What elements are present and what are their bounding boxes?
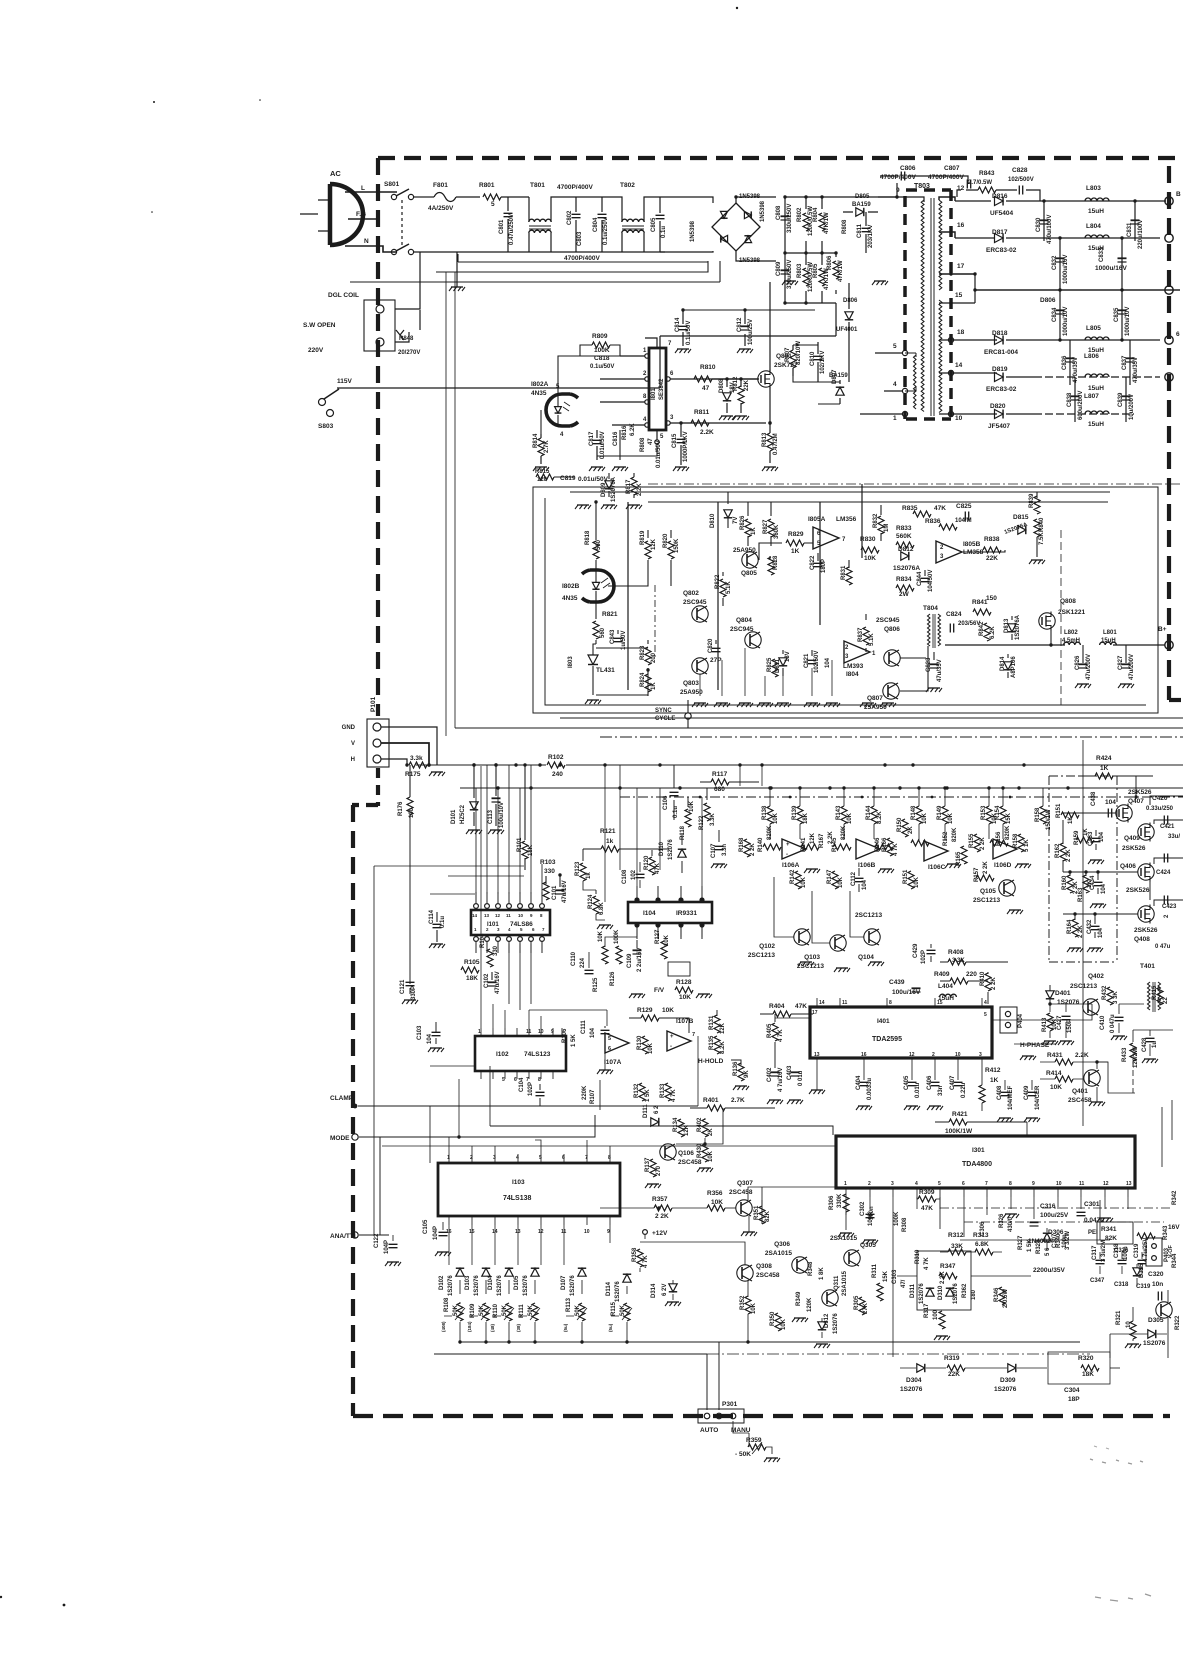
svg-text:4: 4 (893, 381, 897, 388)
ground cluster under I801 (591, 466, 603, 468)
svg-text:R328: R328 (1036, 1239, 1042, 1254)
svg-text:1000u/16V: 1000u/16V (1095, 265, 1127, 272)
svg-text:0.0033u: 0.0033u (867, 1078, 873, 1100)
svg-text:1: 1 (844, 1181, 847, 1187)
svg-text:I106D: I106D (994, 862, 1012, 869)
capacitor C827 47u/200V (1125, 645, 1127, 663)
svg-text:5 1K: 5 1K (1024, 839, 1030, 852)
svg-text:0.47u/250V: 0.47u/250V (509, 214, 515, 245)
wire control bus A (570, 491, 1110, 493)
svg-text:13: 13 (814, 1052, 820, 1058)
svg-text:D810: D810 (710, 513, 716, 528)
svg-text:R117: R117 (712, 771, 728, 778)
svg-text:R141: R141 (801, 837, 807, 852)
svg-text:I103: I103 (512, 1179, 525, 1186)
svg-text:R340: R340 (1056, 1233, 1062, 1248)
svg-text:120K: 120K (807, 1297, 813, 1312)
I102 pins top (481, 1028, 562, 1036)
svg-text:10K: 10K (1050, 1084, 1062, 1091)
svg-text:C317: C317 (1092, 1245, 1098, 1260)
svg-text:R137: R137 (645, 1157, 651, 1172)
grounds bias network (1069, 947, 1081, 949)
svg-text:220u/100V: 220u/100V (1138, 220, 1144, 249)
svg-text:1S2076: 1S2076 (919, 1283, 925, 1304)
resistor R132 1.5K (639, 1083, 645, 1101)
svg-text:10K: 10K (689, 800, 695, 812)
svg-text:R405: R405 (767, 1023, 773, 1038)
wire H pin (381, 759, 407, 765)
svg-text:3 3K: 3 3K (1113, 991, 1119, 1004)
capacitor C838 600u/200V (1074, 377, 1076, 422)
svg-text:I102: I102 (496, 1051, 509, 1058)
svg-text:R166: R166 (882, 837, 888, 852)
svg-text:14: 14 (955, 362, 963, 369)
svg-text:100K: 100K (894, 1211, 900, 1226)
resistor R144 8.2K (871, 806, 877, 824)
svg-text:C424: C424 (1156, 870, 1171, 876)
svg-text:F801: F801 (433, 182, 448, 189)
capacitor symbols row C317-C319 (1096, 1260, 1105, 1263)
ground Q307 (743, 1231, 755, 1233)
IC I301 TDA4800 (836, 1136, 1135, 1188)
wire I101 outputs down (509, 944, 531, 1010)
svg-text:680: 680 (714, 786, 725, 793)
svg-text:820K: 820K (767, 825, 773, 840)
capacitor C811 203/1KV (865, 212, 867, 253)
svg-text:C804: C804 (593, 217, 599, 232)
capacitor C810 102/1KV (817, 342, 819, 382)
resistor R138 10K (767, 806, 773, 824)
svg-text:104: 104 (1098, 927, 1104, 938)
wire control verticals (628, 484, 862, 690)
resistor R137 270 (650, 1159, 656, 1177)
op-amp I107B (667, 1031, 691, 1051)
svg-text:4700P/400V: 4700P/400V (557, 184, 593, 191)
svg-text:C802: C802 (567, 210, 573, 225)
svg-text:2 2K: 2 2K (655, 1213, 669, 1220)
transistor Q104 2SC1213 (864, 929, 880, 945)
svg-text:R809: R809 (592, 333, 608, 340)
pin F.G (348, 218, 378, 220)
svg-text:6: 6 (1176, 331, 1180, 338)
svg-text:10K: 10K (751, 1302, 757, 1314)
I101 pins bottom (474, 937, 479, 942)
svg-text:330K: 330K (837, 1193, 843, 1208)
svg-text:I107A: I107A (604, 1059, 622, 1066)
wire N to lower rail (375, 246, 397, 252)
svg-text:2SC1213: 2SC1213 (748, 952, 775, 959)
svg-text:9K: 9K (744, 1070, 750, 1078)
svg-text:5: 5 (608, 1036, 611, 1042)
svg-text:R825: R825 (767, 657, 773, 672)
svg-text:11: 11 (526, 1029, 532, 1035)
svg-text:I803: I803 (568, 656, 574, 668)
svg-text:H: H (351, 757, 355, 763)
svg-text:10K: 10K (648, 1042, 654, 1054)
svg-text:6.2K: 6.2K (630, 423, 636, 436)
wire MOSFET drain outputs to edge (1158, 796, 1183, 900)
svg-text:1K: 1K (791, 548, 800, 555)
resistor R145 820K (833, 844, 851, 850)
capacitor C434 104 (1094, 882, 1103, 885)
svg-text:A8P106: A8P106 (1011, 656, 1017, 678)
wire pin17 junction (975, 273, 976, 275)
svg-text:+: + (670, 1034, 674, 1040)
svg-text:T804: T804 (923, 605, 938, 612)
svg-text:C319: C319 (1134, 1243, 1140, 1258)
svg-text:-: - (670, 1044, 672, 1050)
svg-text:C808: C808 (776, 205, 782, 220)
svg-text:R803: R803 (797, 263, 803, 278)
svg-text:17: 17 (812, 1010, 818, 1016)
svg-text:DGL COIL: DGL COIL (328, 292, 359, 299)
svg-text:R409: R409 (934, 971, 950, 978)
svg-text:2SC945: 2SC945 (683, 599, 707, 606)
resistor R143 10K (841, 806, 847, 824)
svg-text:0.47/2M: 0.47/2M (773, 433, 779, 455)
svg-text:L404: L404 (938, 983, 953, 990)
capacitor C815 1000P/1KV (680, 423, 682, 465)
resistor R358 4.7K (637, 1249, 643, 1267)
grounds in control box bottom (694, 702, 706, 704)
svg-text:R808: R808 (640, 437, 646, 452)
svg-text:B+: B+ (1158, 626, 1167, 633)
capacitor C836 470u/35V (1069, 340, 1071, 385)
wires R408 R409 net (940, 962, 1008, 1004)
svg-text:R840: R840 (1039, 517, 1045, 532)
svg-text:0.1u: 0.1u (661, 226, 667, 238)
resistor R130 10K (642, 1036, 648, 1054)
capacitor C837 470u/35V (1129, 340, 1131, 385)
ground R813 (764, 466, 776, 468)
diode D304 1S2076 (917, 1364, 925, 1372)
resistor R135 8.2K (714, 1036, 720, 1054)
svg-text:I801: I801 (651, 388, 657, 400)
svg-text:C433: C433 (1088, 831, 1094, 846)
svg-text:F.G: F.G (356, 211, 366, 218)
comparator I804 LM393 (844, 641, 870, 663)
svg-text:4: 4 (915, 1181, 918, 1187)
svg-text:I104: I104 (643, 910, 656, 917)
svg-text:BA159: BA159 (852, 202, 871, 208)
svg-text:-: - (786, 852, 788, 858)
svg-text:R410: R410 (980, 971, 986, 986)
svg-text:R431: R431 (1047, 1052, 1063, 1059)
junction dots bus y788 (496, 786, 499, 789)
svg-text:22K: 22K (986, 555, 998, 562)
svg-text:Q307: Q307 (737, 1180, 753, 1187)
wire 16V rail (1034, 237, 1160, 239)
svg-text:ERC81-004: ERC81-004 (984, 349, 1018, 356)
svg-text:10K: 10K (847, 812, 853, 824)
wire mid bottom buses (960, 1239, 1110, 1241)
svg-text:6.8K: 6.8K (599, 902, 605, 915)
svg-text:R402: R402 (697, 1117, 703, 1132)
svg-text:C820: C820 (708, 638, 714, 653)
svg-text:10: 10 (518, 913, 524, 918)
wire bottom-right verticals (1110, 1290, 1168, 1358)
svg-text:MODE: MODE (330, 1135, 350, 1142)
svg-text:104/MEF: 104/MEF (1008, 1085, 1014, 1110)
svg-text:R124: R124 (588, 894, 594, 909)
svg-text:5.1K: 5.1K (869, 633, 875, 646)
svg-text:D314: D314 (651, 1283, 657, 1298)
svg-text:C432: C432 (1087, 919, 1093, 934)
IC I102 74LS123 (475, 1036, 566, 1071)
resistor R842 6.2K (984, 623, 990, 641)
capacitor C808 330u/250V (784, 197, 786, 253)
svg-text:L804: L804 (1086, 223, 1101, 230)
svg-text:R164: R164 (1067, 919, 1073, 934)
svg-text:R322: R322 (1175, 1315, 1181, 1330)
svg-text:1: 1 (893, 415, 897, 422)
svg-text:6: 6 (514, 1077, 517, 1083)
svg-text:C406: C406 (927, 1075, 933, 1090)
svg-text:D814: D814 (1000, 656, 1006, 671)
svg-text:1S2076A: 1S2076A (1015, 614, 1021, 640)
svg-text:12K: 12K (810, 832, 816, 844)
svg-text:Q311: Q311 (834, 1275, 840, 1290)
capacitor C406 33n (934, 1066, 936, 1080)
op-amp I106A (782, 839, 806, 859)
svg-text:I301: I301 (972, 1147, 985, 1154)
svg-text:2.7K: 2.7K (544, 440, 550, 453)
svg-text:R159: R159 (1074, 830, 1080, 845)
diode D312 1S2076 (818, 1322, 826, 1330)
svg-text:10K: 10K (914, 876, 920, 888)
svg-text:C301: C301 (1084, 1201, 1100, 1208)
svg-text:C403: C403 (787, 1065, 793, 1080)
svg-text:ANA/TTL: ANA/TTL (330, 1233, 358, 1240)
svg-text:R122: R122 (699, 815, 705, 830)
resistor R826 1K (747, 502, 749, 546)
svg-text:R808: R808 (842, 219, 848, 234)
svg-text:C830: C830 (1036, 217, 1042, 232)
svg-text:8.2K: 8.2K (720, 1041, 726, 1054)
wire video bus drops (605, 765, 620, 902)
wire long bus y718 (560, 717, 1183, 719)
svg-text:820K: 820K (1005, 825, 1011, 840)
T803 primary winding (921, 200, 924, 412)
svg-text:10K: 10K (781, 1318, 787, 1330)
svg-text:14: 14 (472, 913, 478, 918)
resistor R149 10K (942, 806, 948, 824)
svg-text:0.01u/50V: 0.01u/50V (578, 476, 609, 483)
bridge rectifier D801-D804 1N5398 (712, 203, 760, 251)
svg-text:R350: R350 (770, 1311, 776, 1326)
svg-text:2SK526: 2SK526 (1134, 927, 1158, 934)
svg-text:R811: R811 (694, 409, 710, 416)
svg-text:3: 3 (979, 1052, 982, 1058)
svg-text:1 5K: 1 5K (645, 1089, 651, 1102)
svg-text:10: 10 (955, 1052, 961, 1058)
svg-text:C102: C102 (484, 973, 490, 988)
vertical drops to opamps (770, 824, 1003, 841)
wire bridge input bottom (705, 251, 713, 252)
svg-text:C410: C410 (1100, 1015, 1106, 1030)
capacitor C822 180P (817, 553, 819, 561)
wire S801 to F801 (414, 196, 430, 198)
svg-text:5: 5 (502, 1077, 505, 1083)
svg-text:Q105: Q105 (980, 888, 996, 895)
svg-text:R827: R827 (763, 519, 769, 534)
svg-text:C326: C326 (1114, 1248, 1129, 1254)
T803 aux winding left (914, 355, 917, 409)
PWM IC I801 SE3842 (649, 348, 666, 430)
svg-text:820/10W: 820/10W (796, 341, 802, 365)
svg-text:2SA1015: 2SA1015 (830, 1235, 857, 1242)
svg-text:R359: R359 (746, 1437, 762, 1444)
svg-text:R140: R140 (758, 837, 764, 852)
svg-text:2.7/0.5W: 2.7/0.5W (968, 180, 992, 186)
svg-text:2 2K: 2 2K (980, 837, 986, 850)
svg-text:R814: R814 (533, 433, 539, 448)
svg-text:UF5404: UF5404 (990, 210, 1014, 217)
resistor R147 10K (832, 871, 838, 889)
resistor R805 47K/1W (821, 253, 823, 303)
capacitor C427 150P (1065, 1002, 1067, 1012)
svg-text:6 2V: 6 2V (662, 1284, 668, 1296)
wire dashdot vertical x655 (654, 585, 656, 660)
transistor Q807 25A950 (883, 683, 899, 699)
svg-text:100u/25V: 100u/25V (1040, 1212, 1069, 1219)
terminal B+ output (945, 644, 1165, 646)
svg-text:1 5K: 1 5K (571, 1034, 577, 1047)
svg-text:C809: C809 (776, 261, 782, 276)
T803 secondary winding lower (939, 300, 942, 413)
I301 pins bottom (845, 1188, 847, 1197)
capacitor C106 0.1u (673, 765, 675, 820)
svg-text:C105: C105 (423, 1219, 429, 1234)
svg-text:18K: 18K (466, 975, 478, 982)
svg-text:D309: D309 (1000, 1377, 1016, 1384)
transistor Q308 2SC458 (737, 1265, 753, 1281)
wire vertical to sync (687, 719, 689, 728)
svg-text:17: 17 (957, 263, 965, 270)
svg-text:L805: L805 (1086, 325, 1101, 332)
svg-text:R150: R150 (897, 817, 903, 832)
svg-text:R108: R108 (444, 1297, 450, 1312)
svg-text:Q805: Q805 (741, 570, 757, 577)
resistor R153 10K (986, 806, 992, 824)
wire long bus y728 (455, 727, 1183, 729)
svg-text:R822: R822 (715, 574, 721, 589)
svg-text:R157: R157 (974, 867, 980, 882)
svg-text:Q402: Q402 (1088, 973, 1104, 980)
svg-text:C822: C822 (810, 555, 816, 570)
capacitor C814 0.1u/50V (682, 310, 684, 346)
svg-text:7: 7 (585, 1155, 588, 1161)
wire right edge verticals (1162, 1100, 1172, 1167)
svg-text:10K: 10K (662, 1007, 674, 1014)
svg-text:D811: D811 (775, 658, 781, 673)
capacitor C804 0.1u/250V (601, 197, 603, 252)
svg-text:10: 10 (584, 1229, 590, 1235)
svg-text:8: 8 (538, 1077, 541, 1083)
svg-text:C113: C113 (488, 809, 494, 824)
svg-text:C112: C112 (851, 871, 857, 886)
ground D808 (721, 415, 733, 417)
svg-text:JF5407: JF5407 (988, 423, 1010, 430)
resistor R141 12K (801, 844, 819, 850)
resistor R165 (961, 846, 967, 864)
svg-text:I805A: I805A (808, 516, 826, 523)
svg-text:R801: R801 (479, 182, 495, 189)
svg-text:R145: R145 (832, 837, 838, 852)
svg-text:Q808: Q808 (1060, 598, 1076, 605)
svg-text:74LS138: 74LS138 (503, 1195, 532, 1202)
svg-text:R138: R138 (762, 805, 768, 820)
svg-text:8: 8 (1009, 1181, 1012, 1187)
capacitor C826 47u/200V (1082, 645, 1084, 663)
svg-text:3 3u/2M: 3 3u/2M (1101, 1240, 1107, 1262)
svg-text:0.22u: 0.22u (961, 1082, 967, 1098)
svg-text:2 2K: 2 2K (940, 1271, 946, 1284)
transistor Q303 (1156, 1302, 1172, 1318)
wire GND pin (381, 727, 437, 765)
wire bridge input top (705, 197, 713, 203)
wire long dash vertical x1061 (1060, 530, 1062, 705)
svg-text:R414: R414 (1046, 1070, 1062, 1077)
svg-text:CYCLE: CYCLE (655, 716, 675, 722)
svg-text:R168: R168 (739, 837, 745, 852)
svg-text:10K: 10K (679, 994, 691, 1001)
svg-text:C318: C318 (1114, 1282, 1129, 1288)
wire select to C-stack mid (660, 335, 836, 337)
svg-text:C104: C104 (519, 1077, 525, 1092)
svg-text:430/0: 430/0 (1008, 1216, 1014, 1232)
svg-text:200: 200 (651, 652, 657, 663)
svg-text:6: 6 (562, 1155, 565, 1161)
svg-text:2SC458: 2SC458 (1068, 1097, 1092, 1104)
capacitor C421 symbol (1164, 816, 1167, 825)
svg-text:D806: D806 (1040, 297, 1056, 304)
svg-text:1u/50V: 1u/50V (621, 631, 627, 650)
diode D310 1S2076 (946, 1288, 954, 1296)
svg-text:2 2K: 2 2K (983, 861, 989, 874)
svg-text:16: 16 (861, 1052, 867, 1058)
capacitor C812 100u/25V (744, 310, 746, 346)
ground GND pin (431, 771, 443, 773)
wire bias box dashdot (1049, 776, 1117, 962)
svg-text:UF4001: UF4001 (836, 327, 858, 333)
svg-text:C823: C823 (926, 657, 932, 672)
svg-text:47/: 47/ (901, 1279, 907, 1288)
svg-text:5 6: 5 6 (1045, 1247, 1051, 1256)
capacitor C801 0.47u/250V (507, 197, 509, 252)
wire bridge - output (736, 251, 776, 261)
svg-text:47K: 47K (934, 505, 946, 512)
svg-text:C101: C101 (552, 885, 558, 900)
svg-text:18K: 18K (803, 812, 809, 824)
svg-text:R837: R837 (858, 627, 864, 642)
svg-text:4 7u/16V: 4 7u/16V (778, 1068, 784, 1092)
wire I102 feeds (480, 766, 482, 1028)
preset wiper links (444, 1315, 619, 1317)
power supply unit dashed border (left) (376, 158, 380, 716)
IC I401 TDA2595 (810, 1007, 992, 1058)
svg-text:2.7K: 2.7K (731, 1097, 745, 1104)
ground for C812 (739, 348, 751, 350)
svg-text:R813: R813 (762, 432, 768, 447)
AC connector J1 (328, 184, 333, 245)
svg-text:C304: C304 (1064, 1387, 1080, 1394)
svg-text:104: 104 (590, 1027, 596, 1038)
svg-text:8.2K: 8.2K (877, 811, 883, 824)
resistor R162 2.2K (1060, 843, 1066, 861)
svg-text:R306: R306 (829, 1195, 835, 1210)
svg-text:R433: R433 (1122, 1047, 1128, 1062)
